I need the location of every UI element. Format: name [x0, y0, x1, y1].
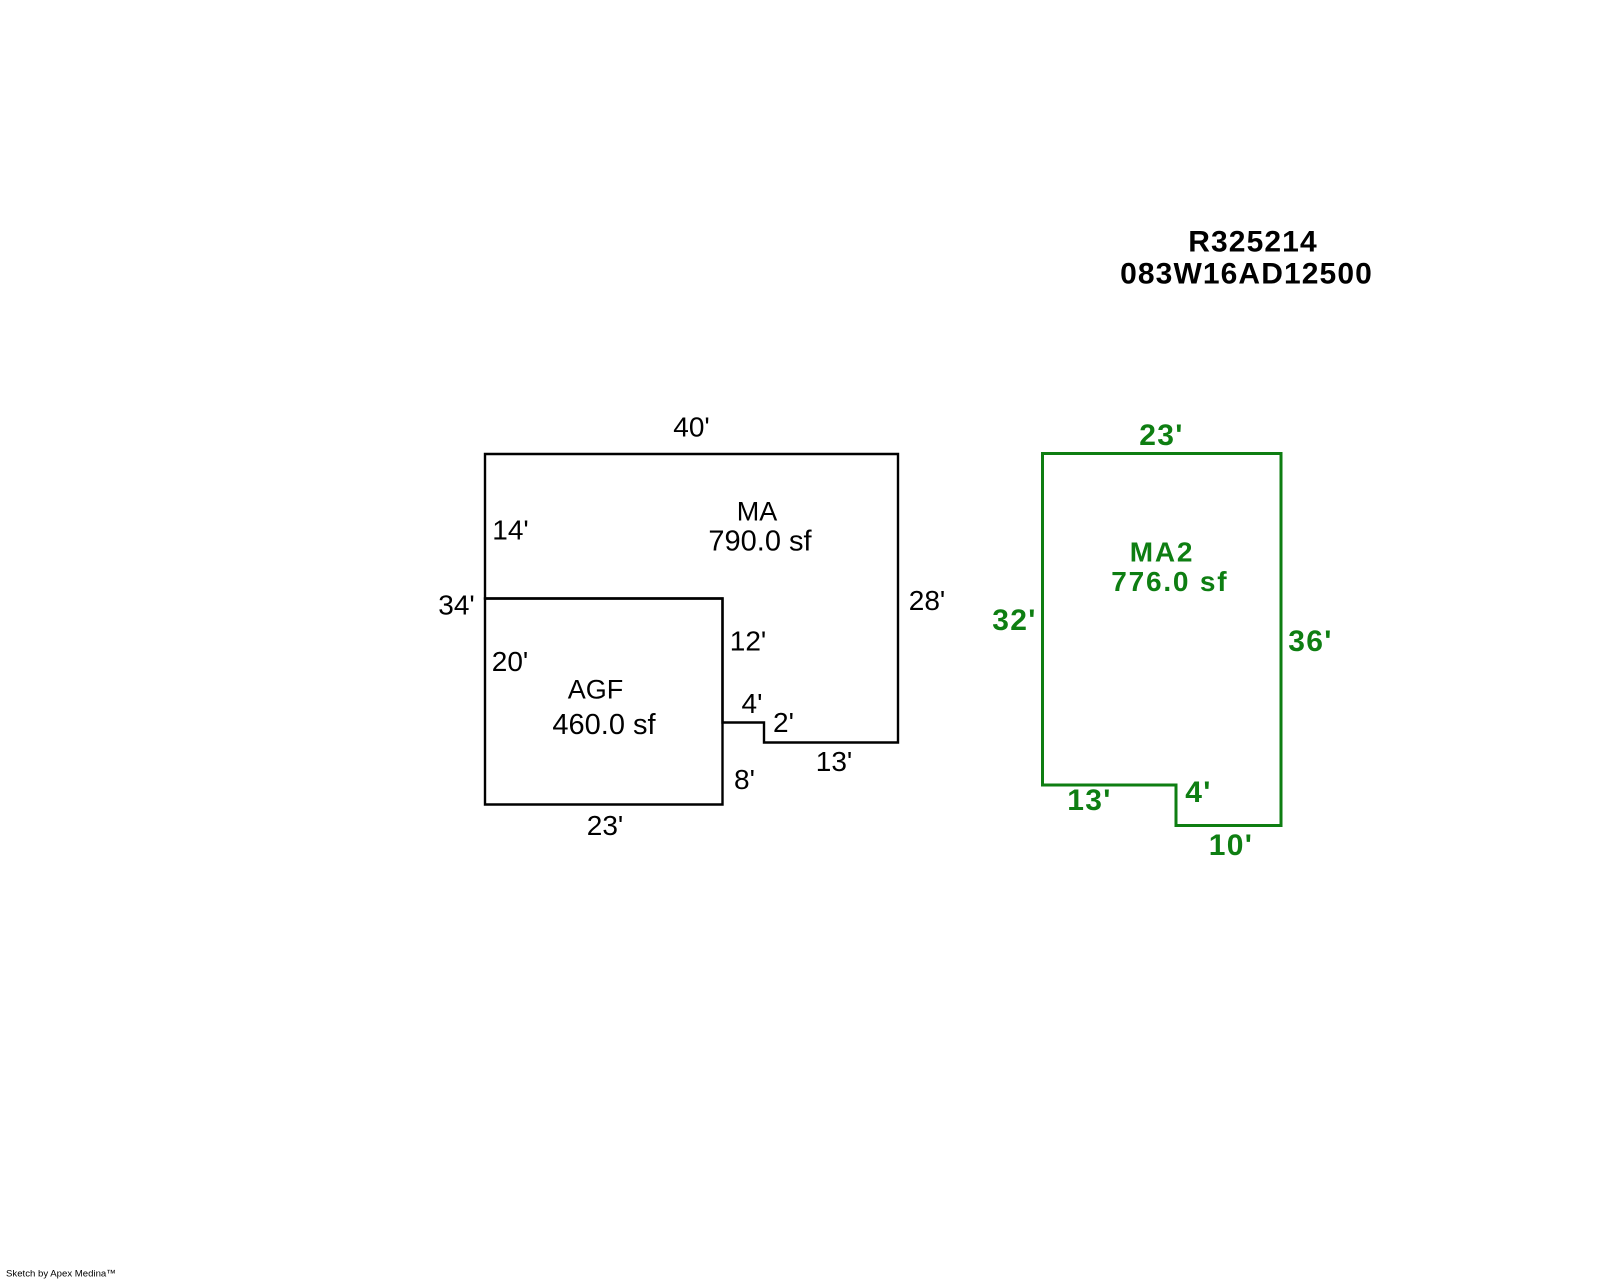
svg-text:28': 28' [909, 585, 946, 616]
MA2 outline (green polygon) [1043, 454, 1282, 826]
MA outline (black polygon) [485, 454, 898, 743]
svg-text:4': 4' [1185, 776, 1211, 809]
AGF outline (black rectangle) [485, 599, 723, 805]
svg-text:Sketch by Apex Medina™: Sketch by Apex Medina™ [6, 1269, 116, 1280]
svg-text:34': 34' [438, 590, 475, 621]
svg-text:2': 2' [773, 707, 794, 738]
svg-text:776.0 sf: 776.0 sf [1111, 566, 1228, 597]
svg-text:13': 13' [816, 746, 853, 777]
svg-text:36': 36' [1288, 625, 1332, 658]
svg-text:MA: MA [737, 497, 778, 527]
svg-text:40': 40' [673, 412, 710, 443]
svg-text:12': 12' [730, 626, 767, 657]
svg-text:10': 10' [1209, 829, 1253, 862]
svg-text:23': 23' [1139, 419, 1183, 452]
svg-text:14': 14' [492, 515, 529, 546]
svg-text:AGF: AGF [568, 675, 624, 705]
svg-text:083W16AD12500: 083W16AD12500 [1120, 258, 1373, 291]
svg-text:4': 4' [742, 688, 763, 719]
svg-text:790.0 sf: 790.0 sf [708, 526, 812, 558]
svg-text:23': 23' [587, 810, 624, 841]
svg-text:13': 13' [1067, 784, 1111, 817]
svg-text:20': 20' [492, 646, 529, 677]
svg-text:32': 32' [992, 604, 1036, 637]
svg-text:R325214: R325214 [1188, 226, 1317, 259]
svg-text:460.0 sf: 460.0 sf [552, 709, 656, 741]
svg-text:MA2: MA2 [1130, 537, 1195, 568]
svg-text:8': 8' [734, 764, 755, 795]
